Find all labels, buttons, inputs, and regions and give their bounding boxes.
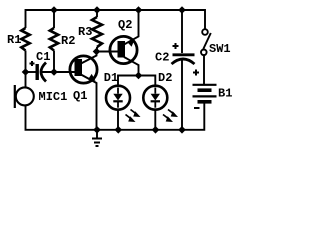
svg-text:C1: C1 (36, 50, 50, 64)
svg-text:Q1: Q1 (73, 89, 87, 103)
svg-text:D1: D1 (104, 71, 118, 85)
svg-text:R3: R3 (78, 25, 92, 39)
svg-text:MIC1: MIC1 (39, 90, 68, 104)
svg-text:R1: R1 (7, 33, 21, 47)
svg-text:SW1: SW1 (209, 42, 231, 56)
svg-text:D2: D2 (158, 71, 172, 85)
svg-text:Q2: Q2 (118, 18, 132, 32)
svg-text:R2: R2 (61, 34, 75, 48)
svg-text:C2: C2 (155, 51, 169, 65)
svg-text:B1: B1 (218, 87, 232, 101)
